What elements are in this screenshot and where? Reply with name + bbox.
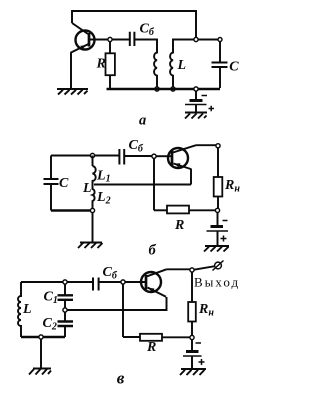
svg-text:L: L (177, 58, 187, 73)
node battery top (a) (194, 87, 198, 91)
capacitor C2 (circuit v) (58, 312, 74, 337)
resistor R (circuit a) (106, 53, 115, 75)
node winding1 bottom (155, 87, 159, 91)
capacitor Cb (circuit a) (130, 32, 135, 46)
capacitor C1 (circuit v) (58, 284, 74, 308)
wire Cb to base node (124, 155, 152, 157)
svg-text:а: а (139, 113, 146, 129)
svg-text:L: L (22, 302, 32, 317)
wire emitter drop (b) (190, 169, 192, 185)
ground (tank, circuit v) (29, 369, 51, 375)
node C1 top (v) (63, 280, 67, 284)
node base (a) (108, 37, 112, 41)
wire Cb to base node (v) (99, 281, 121, 283)
node battery top (b) (215, 208, 219, 212)
resistor R (circuit v) (140, 334, 162, 341)
ground (battery, circuit v) (180, 369, 206, 375)
wire to output terminal (194, 266, 215, 270)
wire node to Cb (112, 39, 129, 41)
wire bottom rail (a) (107, 88, 221, 90)
resistor Rn (circuit b) (214, 177, 223, 197)
wire winding 2 top (173, 40, 194, 49)
node C top corner (a) (218, 38, 222, 42)
node battery top (v) (190, 335, 194, 339)
wire node to R (109, 42, 111, 54)
output terminal (v) (213, 261, 224, 271)
capacitor C (circuit a) (212, 42, 228, 89)
wire rail to C (198, 39, 218, 41)
transistor VT (circuit v) (141, 269, 167, 297)
battery GB (circuit v) (183, 340, 205, 369)
ground (tank, circuit b) (78, 243, 103, 249)
wire bottom rail left segment (b) (154, 209, 167, 211)
svg-text:Выход: Выход (194, 275, 240, 290)
wire bottom rail right segment (v) (162, 336, 190, 338)
wire node to Rn (b) (217, 148, 219, 177)
wire bottom rail left (v) (21, 336, 65, 338)
wire bias vertical (v) (122, 284, 124, 337)
svg-text:L: L (82, 181, 92, 196)
svg-text:C: C (229, 60, 239, 75)
ground (battery, circuit a) (185, 113, 207, 119)
node C1-C2 midpoint (v) (63, 308, 67, 312)
node winding2 bottom (171, 87, 175, 91)
inductor L (circuit v) (18, 282, 21, 337)
transistor VT (circuit b) (168, 145, 196, 169)
node ground tap (v) (39, 335, 43, 339)
wire collector diagonal (72, 23, 88, 34)
wire Cb to winding 1 (134, 40, 157, 49)
wire Rn to bottom node (v) (191, 322, 193, 337)
battery GB (circuit a) (185, 91, 214, 113)
wire ground drop (v) (40, 339, 42, 368)
svg-text:в: в (117, 369, 125, 388)
wire collector to node (b) (196, 144, 218, 146)
capacitor Cb (circuit b) (119, 149, 124, 165)
svg-text:R: R (146, 340, 156, 355)
transistor VT1 (71, 31, 95, 53)
node tank top (b) (90, 153, 94, 157)
wire ground drop (b) (92, 213, 94, 242)
svg-text:R: R (174, 218, 184, 233)
ground (emitter, circuit a) (57, 89, 88, 95)
node collector (b) (216, 144, 220, 148)
node tank bottom (b) (90, 208, 94, 212)
battery GB (circuit b) (207, 213, 229, 247)
node base (b) (152, 154, 156, 158)
wire R to bottom rail (109, 75, 111, 89)
node collector (v) (190, 268, 194, 272)
svg-text:R: R (96, 57, 106, 72)
wire bias vertical (b) (153, 158, 155, 210)
capacitor C (circuit b) (44, 156, 59, 211)
wire tap to emitter (94, 184, 191, 186)
resistor Rn (circuit v) (188, 302, 196, 322)
node collector rail (a) (194, 37, 198, 41)
inductor L with tap (circuit b) (93, 156, 96, 211)
wire collector to node (v) (167, 268, 193, 270)
wire base lead (b) (156, 155, 171, 157)
wire bottom rail left segment (v) (123, 336, 140, 338)
wire base lead (v) (125, 281, 145, 283)
wire emitter down (70, 53, 72, 89)
node base (v) (121, 280, 125, 284)
inductor winding 1 (feedback, circuit a) (154, 48, 157, 88)
ground (battery, circuit b) (204, 246, 229, 252)
wire base lead (89, 39, 108, 41)
wire node to Rn (v) (191, 272, 193, 302)
svg-text:C: C (59, 176, 69, 191)
resistor R (circuit b) (167, 206, 189, 214)
wire top rail (v) (21, 281, 93, 283)
wire midpoint to emitter (v) (67, 297, 166, 310)
wire top rail (b) (51, 155, 119, 157)
wire Rn to bottom node (b) (217, 197, 219, 210)
wire bottom rail right segment (b) (189, 209, 217, 211)
capacitor Cb (circuit v) (93, 278, 99, 291)
svg-text:б: б (149, 243, 157, 259)
wire collector feed top rail (72, 11, 196, 38)
wire bottom-left (b) (51, 209, 92, 211)
inductor winding 2 L (circuit a) (170, 48, 173, 88)
